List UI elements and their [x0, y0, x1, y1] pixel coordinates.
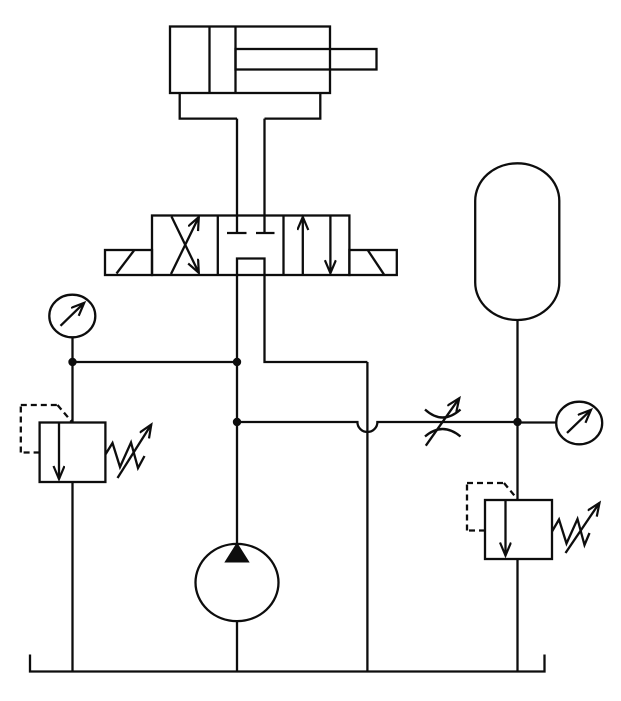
wire: accumulator to junction: [516, 320, 518, 422]
relief valve 1 pilot line (dashed): [21, 405, 72, 453]
pressure gauge 1 dial: [49, 295, 95, 338]
tank reservoir: [30, 655, 545, 672]
wire: relief valve 1 to tank: [71, 482, 73, 672]
node: accumulator junction: [513, 418, 521, 426]
accumulator: [475, 163, 559, 320]
relief valve 2 pilot line (dashed): [467, 483, 517, 531]
wire: flange to valve port B: [263, 119, 265, 216]
valve position divider right: [282, 216, 284, 276]
relief valve 1 flow arrow: [58, 423, 60, 479]
throttle valve upper arc: [425, 410, 461, 418]
throttle valve adjustment arrow: [426, 398, 460, 446]
wire: valve port T down: [265, 275, 368, 362]
node: pressure line junction: [233, 358, 241, 366]
throttle valve lower arc: [425, 429, 461, 437]
wire: junction to relief valve 2: [516, 422, 518, 500]
relief valve 1 spring: [105, 443, 144, 469]
node: left junction: [68, 358, 76, 366]
relief valve 1 adjustment arrow: [118, 425, 152, 479]
directional valve body: [152, 216, 349, 276]
relief valve 2 adjustment arrow: [566, 503, 600, 553]
pressure gauge 2 dial: [556, 402, 602, 445]
relief valve 2 flow arrow: [504, 501, 506, 556]
pump flow triangle: [226, 545, 247, 562]
wire: left junction to pressure line: [73, 361, 238, 363]
valve left position crossed arrow 2: [172, 217, 199, 273]
valve right position down arrow: [329, 216, 331, 273]
wire: gauge 1 to relief valve 1: [71, 337, 73, 423]
pressure gauge 2 needle: [567, 410, 591, 433]
valve left position crossed arrow 1: [171, 217, 199, 274]
wire: pump junction to accumulator junction with hop over tank line: [237, 422, 518, 432]
wire: pump to tank: [236, 621, 238, 672]
valve right position up arrow: [302, 217, 304, 275]
valve left solenoid: [105, 250, 152, 275]
valve right solenoid diagonal: [368, 251, 384, 275]
valve position divider left: [217, 216, 219, 276]
cylinder rod: [236, 49, 377, 70]
wire: junction to gauge 2: [518, 421, 558, 423]
wire: relief valve 2 to tank: [516, 559, 518, 672]
relief valve 2 spring: [552, 519, 590, 545]
relief valve 1 body: [40, 423, 106, 483]
wire: tank return line: [366, 362, 368, 672]
relief valve 2 body: [485, 500, 552, 559]
cylinder mounting flange: [180, 93, 321, 119]
wire: valve port P down to pump: [236, 275, 238, 545]
valve center position blocked port A: [227, 216, 247, 234]
valve left solenoid diagonal: [117, 251, 135, 274]
wire: flange to valve port A: [236, 119, 238, 216]
valve center position bottom bridge: [237, 259, 265, 277]
node: pump outlet junction: [233, 418, 241, 426]
cylinder piston: [208, 27, 210, 94]
pressure gauge 1 needle: [61, 303, 85, 326]
valve right solenoid: [349, 250, 396, 275]
pump: [196, 544, 279, 621]
valve center position blocked port B: [256, 216, 275, 234]
cylinder body: [170, 27, 330, 94]
